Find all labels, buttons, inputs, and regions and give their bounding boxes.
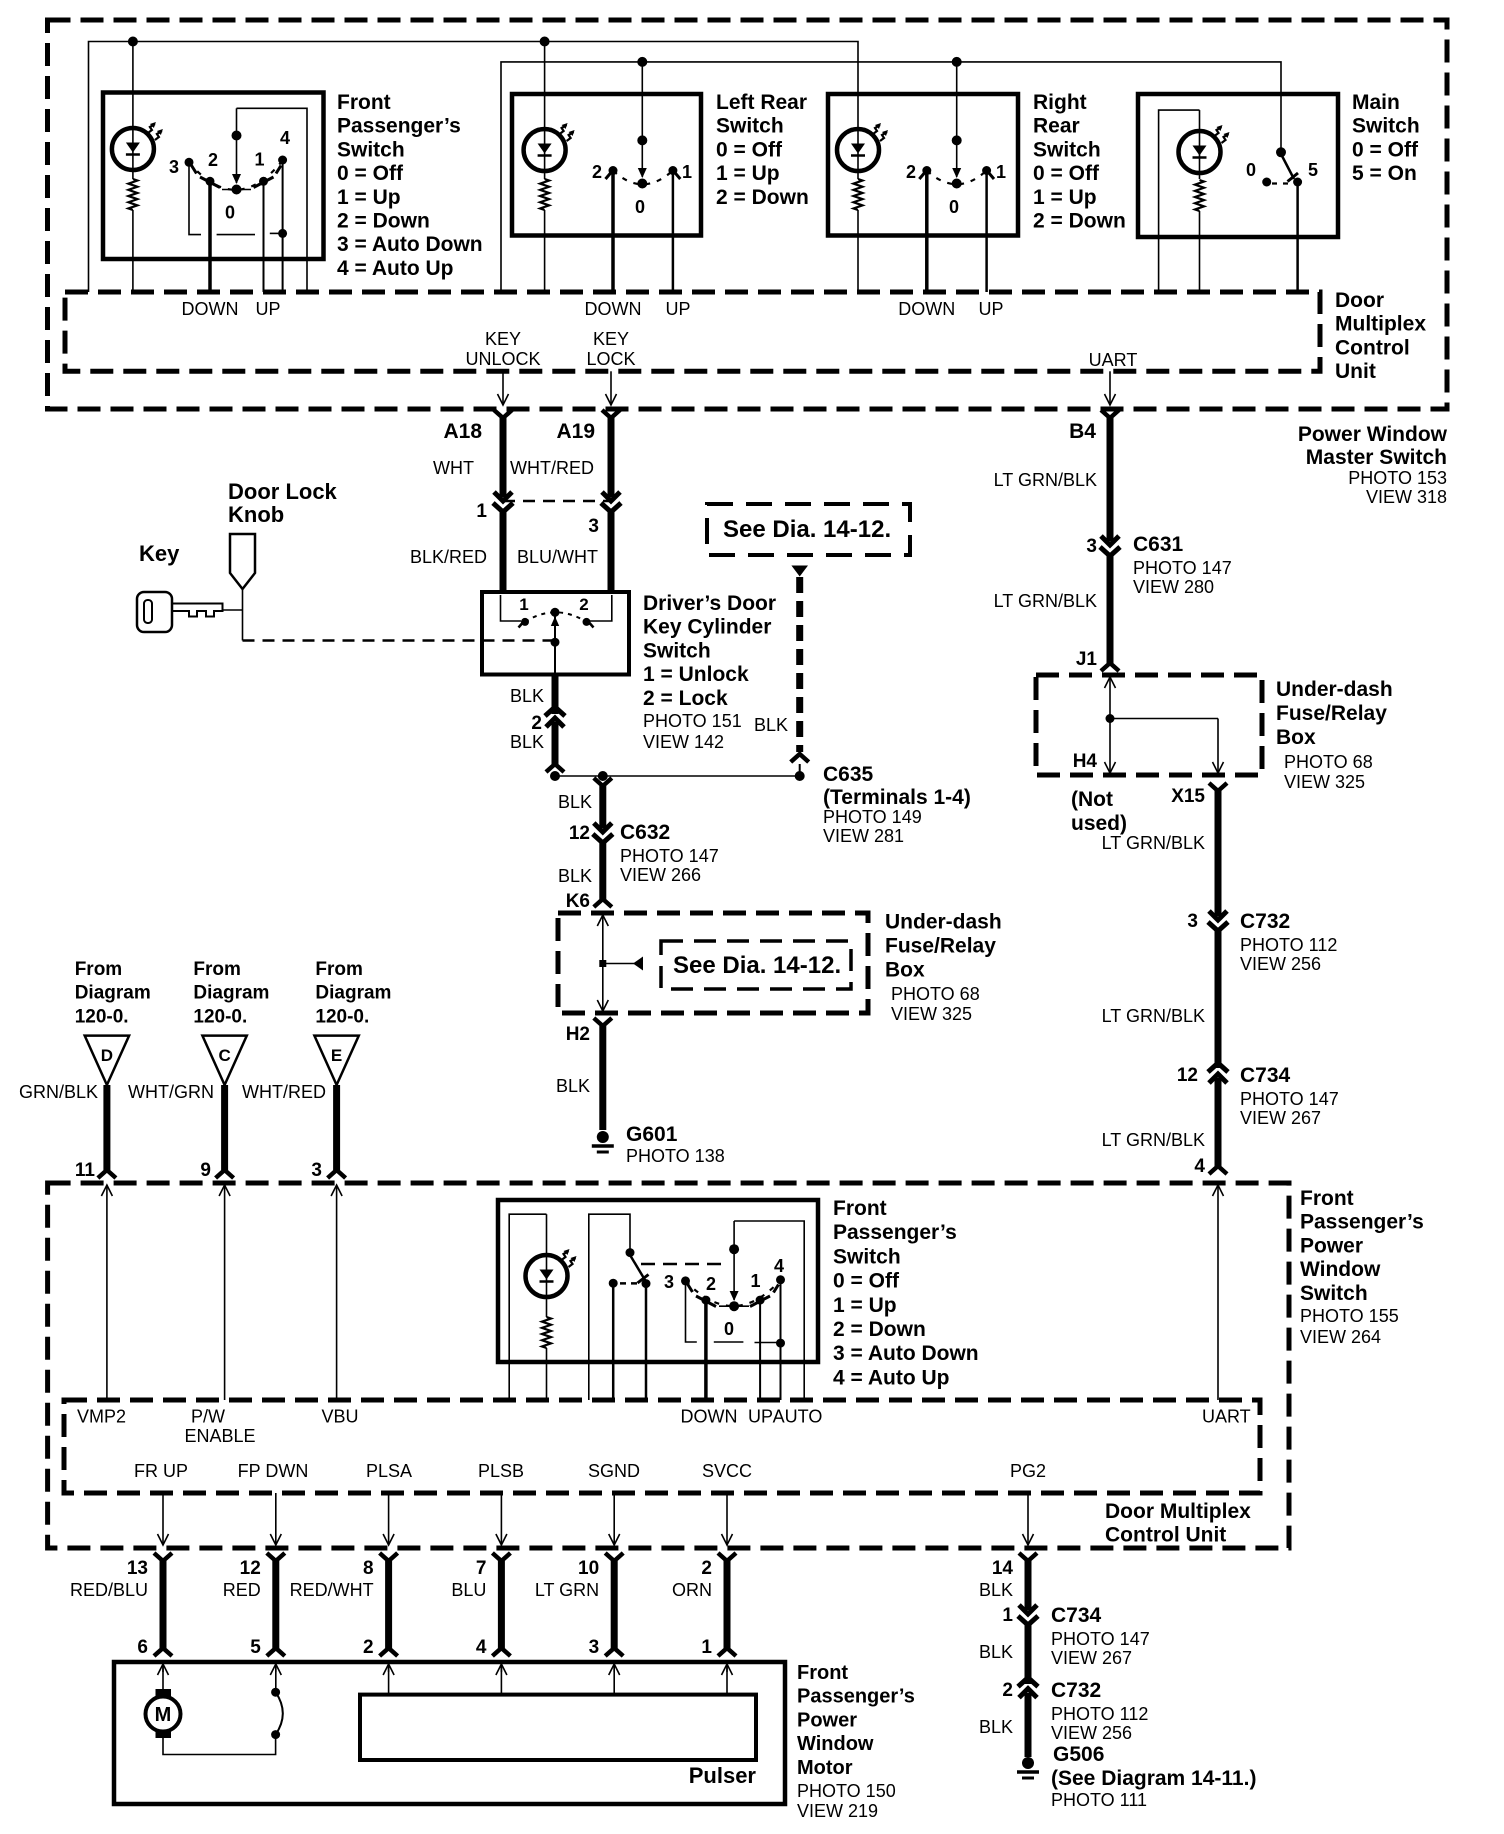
- wire: pin 5 to breaker: [275, 1664, 277, 1689]
- svg-text:12: 12: [569, 823, 590, 844]
- svg-text:ENABLE: ENABLE: [184, 1426, 255, 1446]
- svg-text:C: C: [218, 1046, 230, 1065]
- svg-text:5 = On: 5 = On: [1352, 162, 1417, 185]
- dashed selector arc: [525, 612, 587, 622]
- svg-text:C635: C635: [823, 763, 874, 786]
- svg-text:Box: Box: [1276, 726, 1316, 749]
- pin 13: arrow out of control unit: [162, 1493, 164, 1545]
- wire: right rear movable contact from bus2: [956, 62, 958, 177]
- wire into motor: [726, 1664, 728, 1672]
- svg-text:Switch: Switch: [1352, 115, 1420, 138]
- svg-text:3: 3: [1187, 911, 1198, 932]
- svg-text:14: 14: [992, 1558, 1014, 1579]
- svg-text:Under-dash: Under-dash: [1276, 678, 1393, 701]
- svg-text:BLK: BLK: [510, 686, 544, 706]
- svg-text:C631: C631: [1133, 533, 1184, 556]
- connector A18: [494, 410, 512, 418]
- svg-text:Key Cylinder: Key Cylinder: [643, 616, 771, 639]
- svg-text:FR UP: FR UP: [134, 1461, 188, 1481]
- svg-text:RED/BLU: RED/BLU: [70, 1580, 148, 1600]
- wire: center contact to key linkage: [554, 616, 556, 675]
- svg-text:9: 9: [200, 1160, 211, 1181]
- svg-text:Door Lock: Door Lock: [228, 479, 338, 504]
- svg-text:120-0.: 120-0.: [193, 1006, 247, 1027]
- switch S5: Driver's Door Key Cylinder Switch box: [482, 592, 629, 675]
- svg-text:1: 1: [476, 501, 487, 522]
- wires: pins 2 4 3 1 to pulser: [388, 1664, 390, 1695]
- svg-text:UP: UP: [255, 299, 280, 319]
- resistor R2: [540, 179, 549, 210]
- svg-text:PLSA: PLSA: [366, 1461, 412, 1481]
- svg-text:BLK: BLK: [556, 1076, 590, 1096]
- box: Pulser: [360, 1695, 756, 1760]
- svg-text:2: 2: [1002, 1680, 1013, 1701]
- svg-text:PG2: PG2: [1010, 1461, 1046, 1481]
- wire: pin 2 internal: [590, 595, 612, 621]
- contact 1 (up) with wire UP: [259, 177, 268, 186]
- svg-text:2: 2: [579, 595, 588, 614]
- box: See Dia. 14-12. reference (dashed): [707, 504, 910, 555]
- svg-text:2: 2: [706, 1274, 716, 1294]
- wire BLK/RED: [500, 512, 507, 592]
- pin 2: arrow out of control unit: [726, 1493, 728, 1545]
- wire: bus2 (switch common rail): [501, 62, 1281, 292]
- svg-text:VIEW 281: VIEW 281: [823, 826, 904, 846]
- pin A18: arrow out of control unit: [502, 371, 504, 405]
- svg-text:used): used): [1071, 812, 1127, 835]
- svg-text:4: 4: [476, 1637, 487, 1658]
- node: bus1 junction at left rear LED: [540, 37, 550, 47]
- svg-text:SVCC: SVCC: [702, 1461, 752, 1481]
- node C635: terminals 1-4 common: [555, 775, 800, 777]
- svg-text:PHOTO 112: PHOTO 112: [1051, 1704, 1148, 1724]
- svg-text:G601: G601: [626, 1123, 678, 1146]
- dashed selector arc: [686, 1280, 781, 1306]
- svg-text:(See Diagram 14-11.): (See Diagram 14-11.): [1051, 1767, 1256, 1790]
- svg-text:5: 5: [250, 1637, 261, 1658]
- wire LT GRN/BLK: [1107, 556, 1114, 663]
- svg-text:RED/WHT: RED/WHT: [290, 1580, 374, 1600]
- svg-text:13: 13: [127, 1558, 148, 1579]
- svg-text:1: 1: [750, 1271, 760, 1291]
- svg-text:AUTO: AUTO: [773, 1407, 823, 1427]
- svg-text:Under-dash: Under-dash: [885, 911, 1002, 934]
- svg-text:Fuse/Relay: Fuse/Relay: [885, 935, 996, 958]
- circuit breaker: [271, 1688, 280, 1697]
- wire into motor: [275, 1664, 277, 1672]
- contact 3 (auto down): [681, 1276, 690, 1285]
- wire BLK: [1025, 1693, 1032, 1757]
- svg-text:PHOTO 68: PHOTO 68: [1284, 752, 1373, 772]
- svg-text:BLK: BLK: [558, 866, 592, 886]
- svg-text:BLK: BLK: [979, 1717, 1013, 1737]
- wire: left rear LED feed: [544, 42, 546, 180]
- svg-text:11: 11: [75, 1160, 96, 1181]
- node: center contact 0: [729, 1301, 739, 1311]
- svg-text:LT GRN: LT GRN: [535, 1580, 599, 1600]
- svg-text:Key: Key: [139, 541, 180, 566]
- wire: pin 6 to motor: [162, 1664, 164, 1690]
- svg-text:H2: H2: [566, 1024, 590, 1045]
- wire into motor: [162, 1664, 164, 1672]
- svg-text:K6: K6: [566, 891, 590, 912]
- svg-text:PHOTO 149: PHOTO 149: [823, 807, 922, 827]
- svg-text:GRN/BLK: GRN/BLK: [19, 1082, 98, 1102]
- svg-text:WHT/RED: WHT/RED: [510, 458, 594, 478]
- connector C732 pin 2: [1018, 1678, 1038, 1687]
- connector pin 12: [267, 1553, 285, 1561]
- svg-text:2: 2: [592, 162, 602, 182]
- svg-text:Passenger’s: Passenger’s: [337, 115, 461, 138]
- wire: LED limb: [509, 1214, 546, 1400]
- svg-text:0: 0: [635, 197, 645, 217]
- connector J1: [1101, 663, 1119, 671]
- wire into motor: [613, 1664, 615, 1672]
- wire BLK: [552, 722, 559, 764]
- wire: P/W enable limb: [589, 1214, 630, 1400]
- svg-text:From: From: [193, 959, 241, 980]
- svg-text:4: 4: [1194, 1156, 1205, 1177]
- pin B4: arrow out of control unit: [1109, 371, 1111, 405]
- svg-text:BLK: BLK: [979, 1642, 1013, 1662]
- svg-text:Rear: Rear: [1033, 115, 1080, 138]
- svg-text:1: 1: [519, 595, 528, 614]
- wire BLK below key cylinder switch: [552, 675, 559, 715]
- contact 0: [1262, 178, 1271, 187]
- box: Under-dash Fuse/Relay Box (right) dashed: [1036, 675, 1262, 775]
- dashed wire BLK to C635: [796, 577, 803, 752]
- svg-text:12: 12: [1177, 1065, 1198, 1086]
- key symbol: [137, 592, 172, 632]
- svg-text:1 = Unlock: 1 = Unlock: [643, 663, 749, 686]
- contact 4 (auto up): [776, 1275, 785, 1284]
- wire: key to knob link: [223, 609, 243, 611]
- svg-text:1: 1: [254, 150, 264, 170]
- connector pin 3: [602, 492, 620, 501]
- svg-text:Pulser: Pulser: [689, 1763, 757, 1788]
- ground G506: [1022, 1757, 1034, 1769]
- wire: J1 internal link: [1109, 677, 1111, 719]
- connector pin 8: [380, 1553, 398, 1561]
- svg-text:UART: UART: [1089, 350, 1138, 370]
- svg-text:J1: J1: [1076, 649, 1098, 670]
- svg-text:PHOTO 153: PHOTO 153: [1348, 468, 1447, 488]
- svg-text:120-0.: 120-0.: [315, 1006, 369, 1027]
- wire: right rear LED feed (bus1 end): [857, 131, 859, 180]
- svg-text:1: 1: [682, 162, 692, 182]
- node: bus1 junction at front passenger LED: [128, 37, 138, 47]
- svg-text:Unit: Unit: [1335, 360, 1376, 383]
- svg-text:4 = Auto Up: 4 = Auto Up: [337, 257, 453, 280]
- svg-text:BLK: BLK: [754, 715, 788, 735]
- node: enable switch pivot: [626, 1248, 635, 1257]
- connector pin 7: [492, 1553, 510, 1561]
- svg-text:BLK: BLK: [510, 732, 544, 752]
- wire VMP2: [106, 1185, 108, 1400]
- svg-text:6: 6: [137, 1637, 148, 1658]
- wire BLK: [1025, 1625, 1032, 1684]
- svg-text:Switch: Switch: [337, 138, 405, 161]
- svg-text:Front: Front: [1300, 1187, 1354, 1210]
- box: Door Multiplex Control Unit (top) dashed: [65, 292, 1320, 371]
- contact 1 (up): [982, 166, 991, 175]
- connector C734 pin 12: [1208, 1063, 1228, 1072]
- resistor R5: [542, 1317, 551, 1348]
- svg-text:1 = Up: 1 = Up: [716, 162, 780, 185]
- box: Front Passenger's Power Window Motor: [114, 1662, 785, 1804]
- contact 2 (down): [922, 166, 931, 175]
- wire LT GRN/BLK from X15: [1215, 791, 1222, 916]
- svg-text:Control Unit: Control Unit: [1105, 1524, 1226, 1547]
- svg-text:0 = Off: 0 = Off: [1033, 162, 1100, 185]
- svg-text:VMP2: VMP2: [77, 1407, 126, 1427]
- triangle connector from diagram 14-12: [791, 566, 808, 577]
- wire UART (bottom): [1217, 1185, 1219, 1400]
- svg-text:D: D: [101, 1046, 113, 1065]
- node: dot on movable contact wire: [232, 131, 242, 141]
- svg-text:SGND: SGND: [588, 1461, 640, 1481]
- svg-text:0 = Off: 0 = Off: [337, 162, 404, 185]
- pin 7: arrow out of control unit: [500, 1493, 502, 1545]
- svg-text:Diagram: Diagram: [315, 983, 391, 1004]
- svg-text:1: 1: [701, 1637, 712, 1658]
- svg-text:VIEW 256: VIEW 256: [1240, 954, 1321, 974]
- svg-text:LOCK: LOCK: [586, 349, 635, 369]
- switch S3: Right Rear Switch box: [828, 94, 1018, 236]
- dashed selector arc: [189, 160, 283, 190]
- connector C631 pin 3: [1101, 536, 1119, 545]
- wire: left rear movable contact from bus2: [641, 62, 643, 177]
- svg-text:4: 4: [280, 128, 290, 148]
- contact 2 (down): [609, 166, 618, 175]
- svg-text:VIEW 264: VIEW 264: [1300, 1327, 1381, 1347]
- contact 1: [521, 618, 529, 626]
- svg-text:H4: H4: [1073, 751, 1098, 772]
- node: internal junction: [1106, 714, 1115, 723]
- svg-text:0 = Off: 0 = Off: [716, 138, 783, 161]
- wire: bus1 (LED supply rail): [89, 42, 859, 293]
- svg-text:Window: Window: [797, 1733, 874, 1755]
- svg-text:Switch: Switch: [1033, 138, 1101, 161]
- LED D4: main switch illumination: [1179, 131, 1221, 173]
- svg-text:(Not: (Not: [1071, 788, 1113, 811]
- svg-text:Door Multiplex: Door Multiplex: [1105, 1500, 1251, 1523]
- switch S1: Front Passenger's Switch (top) box: [103, 93, 324, 260]
- LED D2: left rear switch illumination: [524, 129, 566, 171]
- resistor R1: LED series resistor: [128, 179, 137, 210]
- svg-text:UNLOCK: UNLOCK: [465, 349, 540, 369]
- svg-text:B4: B4: [1069, 420, 1096, 443]
- svg-text:Front: Front: [797, 1662, 848, 1684]
- wire RED/BLU: [160, 1561, 167, 1648]
- connector pin 13: [154, 1553, 172, 1561]
- svg-text:2 = Down: 2 = Down: [833, 1318, 926, 1341]
- contact 1 (up): [668, 166, 677, 175]
- svg-text:WHT: WHT: [433, 458, 474, 478]
- svg-text:BLK/RED: BLK/RED: [410, 547, 487, 567]
- svg-text:VIEW 318: VIEW 318: [1366, 487, 1447, 507]
- svg-text:E: E: [331, 1046, 342, 1065]
- box: Power Window Master Switch outer dashed boundary: [48, 20, 1448, 409]
- svg-text:Passenger’s: Passenger’s: [797, 1686, 915, 1708]
- node: main switch pivot: [1276, 147, 1286, 157]
- svg-text:4 = Auto Up: 4 = Auto Up: [833, 1366, 949, 1389]
- svg-text:3 = Auto Down: 3 = Auto Down: [833, 1342, 979, 1365]
- svg-text:Power: Power: [1300, 1234, 1363, 1257]
- svg-text:8: 8: [363, 1558, 374, 1579]
- svg-text:2: 2: [906, 162, 916, 182]
- svg-text:UP: UP: [748, 1407, 773, 1427]
- svg-text:PHOTO 138: PHOTO 138: [626, 1146, 725, 1166]
- svg-text:Left Rear: Left Rear: [716, 91, 807, 114]
- svg-text:PLSB: PLSB: [478, 1461, 524, 1481]
- switch S2: Left Rear Switch box: [512, 94, 701, 236]
- connector motor pin 6: [154, 1648, 172, 1656]
- box: inner See Dia. 14-12. (dashed): [661, 941, 851, 989]
- node: internal junction: [599, 960, 606, 967]
- node: center contact 0: [232, 185, 242, 195]
- latch bar below 0: [714, 1341, 744, 1343]
- svg-text:PHOTO 112: PHOTO 112: [1240, 935, 1337, 955]
- LED D5: front passenger switch illumination: [526, 1255, 568, 1297]
- svg-text:3: 3: [664, 1272, 674, 1292]
- wire: front passenger LED feed: [132, 42, 134, 180]
- svg-text:From: From: [75, 959, 123, 980]
- svg-text:PHOTO 150: PHOTO 150: [797, 1781, 896, 1801]
- svg-text:3: 3: [169, 157, 179, 177]
- svg-text:Switch: Switch: [1300, 1282, 1368, 1305]
- svg-text:PHOTO 151: PHOTO 151: [643, 711, 742, 731]
- box: Under-dash Fuse/Relay Box (middle) dashed: [558, 913, 868, 1013]
- wire: LED to control unit: [132, 210, 134, 292]
- dashed selector arc: [613, 171, 673, 185]
- svg-text:3 = Auto Down: 3 = Auto Down: [337, 233, 483, 256]
- svg-text:Switch: Switch: [716, 115, 784, 138]
- node: key linkage junction: [551, 638, 560, 647]
- LED D3: right rear switch illumination: [837, 129, 879, 171]
- svg-text:PHOTO 147: PHOTO 147: [1051, 1629, 1150, 1649]
- svg-text:2 = Down: 2 = Down: [337, 210, 430, 233]
- svg-text:G506: G506: [1053, 1743, 1104, 1766]
- svg-text:Diagram: Diagram: [75, 983, 151, 1004]
- wire: to H4 (not used): [1109, 719, 1111, 774]
- svg-text:C732: C732: [1051, 1679, 1101, 1702]
- svg-text:0: 0: [1246, 160, 1256, 180]
- box: Front Passenger's Power Window Switch outer dashed boundary: [48, 1183, 1289, 1548]
- svg-text:Switch: Switch: [833, 1245, 901, 1268]
- svg-text:Control: Control: [1335, 336, 1410, 359]
- svg-text:Master Switch: Master Switch: [1306, 446, 1447, 469]
- svg-text:0: 0: [225, 203, 235, 223]
- svg-text:0: 0: [949, 197, 959, 217]
- connector B4: [1101, 410, 1119, 418]
- svg-text:0 = Off: 0 = Off: [833, 1270, 900, 1293]
- contact 2 (down): [701, 1296, 710, 1305]
- svg-text:PHOTO 147: PHOTO 147: [1240, 1089, 1339, 1109]
- pin 8: arrow out of control unit: [388, 1493, 390, 1545]
- wire: pin 1 internal: [501, 595, 522, 621]
- svg-text:VIEW 256: VIEW 256: [1051, 1723, 1132, 1743]
- wire BLK: [1025, 1561, 1032, 1610]
- svg-text:2: 2: [531, 713, 542, 734]
- svg-text:KEY: KEY: [593, 329, 629, 349]
- svg-text:VBU: VBU: [321, 1407, 358, 1427]
- pin 14 / PG2: arrow out of control unit: [1027, 1493, 1029, 1545]
- svg-text:LT GRN/BLK: LT GRN/BLK: [994, 591, 1097, 611]
- svg-text:From: From: [315, 959, 363, 980]
- svg-text:UP: UP: [665, 299, 690, 319]
- svg-text:10: 10: [578, 1558, 599, 1579]
- node: bus2 junction at left rear switch: [637, 57, 647, 67]
- svg-text:Power: Power: [797, 1709, 857, 1731]
- svg-text:Front: Front: [833, 1197, 887, 1220]
- svg-text:1 = Up: 1 = Up: [833, 1294, 897, 1317]
- connector motor pin 1: [718, 1648, 736, 1656]
- svg-text:Front: Front: [337, 91, 391, 114]
- svg-text:5: 5: [1308, 160, 1318, 180]
- svg-text:2 = Down: 2 = Down: [716, 186, 809, 209]
- connector motor pin 3: [605, 1648, 623, 1656]
- enable contacts: [609, 1279, 618, 1288]
- lever arm: [1281, 154, 1294, 179]
- svg-text:LT GRN/BLK: LT GRN/BLK: [1102, 833, 1205, 853]
- svg-text:0 = Off: 0 = Off: [1352, 138, 1419, 161]
- dashed throw mark: [1272, 182, 1292, 184]
- wire BLU/WHT: [608, 512, 615, 592]
- svg-text:WHT/GRN: WHT/GRN: [128, 1082, 214, 1102]
- svg-text:LT GRN/BLK: LT GRN/BLK: [1102, 1130, 1205, 1150]
- enable lever arm: [630, 1255, 645, 1280]
- box: Door Multiplex Control Unit (bottom) dashed: [64, 1400, 1260, 1493]
- svg-text:Passenger’s: Passenger’s: [1300, 1211, 1424, 1234]
- svg-text:LT GRN/BLK: LT GRN/BLK: [994, 470, 1097, 490]
- wire: movable contact feed: [236, 108, 238, 183]
- svg-text:7: 7: [476, 1558, 487, 1579]
- svg-text:PHOTO 111: PHOTO 111: [1051, 1790, 1147, 1810]
- svg-text:PHOTO 147: PHOTO 147: [1133, 558, 1232, 578]
- svg-text:2 = Lock: 2 = Lock: [643, 687, 728, 710]
- svg-text:PHOTO 147: PHOTO 147: [620, 846, 719, 866]
- wire GRN/BLK: [103, 1085, 110, 1170]
- svg-text:Fuse/Relay: Fuse/Relay: [1276, 702, 1387, 725]
- svg-text:2: 2: [701, 1558, 712, 1579]
- svg-text:120-0.: 120-0.: [75, 1006, 129, 1027]
- wire WHT/RED: [608, 418, 615, 497]
- svg-text:Diagram: Diagram: [193, 983, 269, 1004]
- svg-text:See Dia. 14-12.: See Dia. 14-12.: [673, 952, 841, 979]
- svg-text:3: 3: [1086, 536, 1097, 557]
- connector pin 10: [605, 1553, 623, 1561]
- wire: inner frame / contact 4 branch: [237, 108, 308, 292]
- svg-text:BLK: BLK: [558, 792, 592, 812]
- wire: K6 internal: [602, 915, 604, 964]
- svg-text:X15: X15: [1171, 786, 1205, 807]
- svg-text:C734: C734: [1051, 1604, 1102, 1627]
- link to See Dia. 14-12.: [603, 963, 634, 965]
- svg-text:Main: Main: [1352, 91, 1400, 114]
- svg-text:ORN: ORN: [672, 1580, 712, 1600]
- dashed link to window switch: [641, 1263, 722, 1266]
- svg-text:Driver’s Door: Driver’s Door: [643, 592, 776, 615]
- connector A19: [602, 410, 620, 418]
- wire into motor: [388, 1664, 390, 1672]
- connector pin 2 of C635 branch: [545, 707, 565, 716]
- svg-text:WHT/RED: WHT/RED: [242, 1082, 326, 1102]
- svg-text:PHOTO 155: PHOTO 155: [1300, 1306, 1399, 1326]
- svg-text:See Dia. 14-12.: See Dia. 14-12.: [723, 516, 891, 543]
- svg-text:UART: UART: [1202, 1407, 1251, 1427]
- svg-text:2 = Down: 2 = Down: [1033, 210, 1126, 233]
